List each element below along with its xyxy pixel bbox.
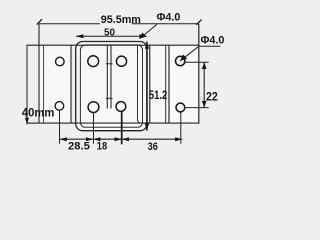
svg-text:51.2: 51.2 xyxy=(149,88,168,102)
svg-text:40mm: 40mm xyxy=(22,106,55,120)
svg-text:22: 22 xyxy=(206,92,218,104)
svg-text:Φ4.0: Φ4.0 xyxy=(201,35,225,47)
svg-text:36: 36 xyxy=(148,141,158,153)
svg-text:95.5mm: 95.5mm xyxy=(101,14,141,26)
svg-text:Φ4.0: Φ4.0 xyxy=(157,11,181,23)
svg-text:50: 50 xyxy=(104,28,116,39)
svg-text:18: 18 xyxy=(97,140,107,152)
svg-text:28.5: 28.5 xyxy=(68,141,90,153)
